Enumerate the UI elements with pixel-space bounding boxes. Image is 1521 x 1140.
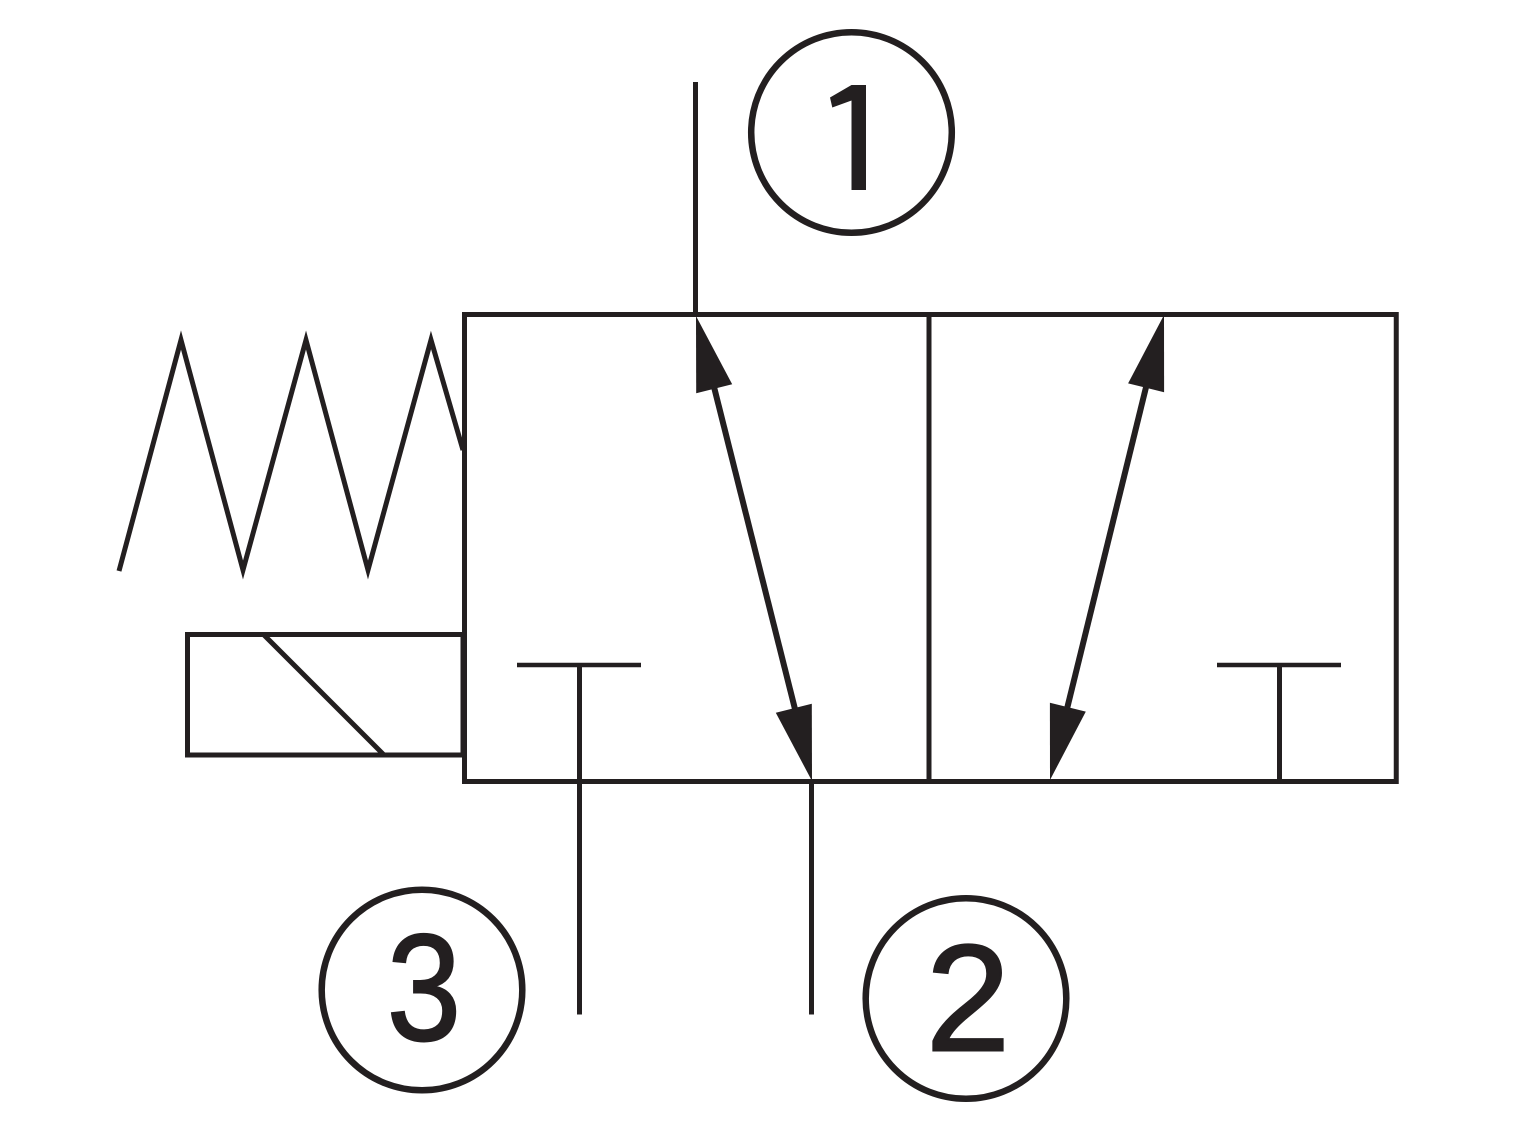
wire: port 1 supply line	[693, 82, 698, 316]
flow path arrow (right position, port 1 to port 2)	[1050, 315, 1164, 780]
blocked port seat T (right position)	[1217, 665, 1341, 781]
wire: port 2 outlet line	[809, 781, 814, 1015]
solenoid coil Y1	[188, 635, 464, 756]
blocked port seat T (left position, port 3)	[517, 663, 641, 668]
svg-text:3: 3	[387, 903, 461, 1073]
spring: return spring actuator	[119, 340, 463, 571]
valve position divider	[927, 315, 932, 782]
node 1: circled port label 1	[751, 32, 952, 233]
node 2: circled port label 2	[866, 898, 1067, 1099]
wire: port 3 exhaust line	[577, 665, 582, 1015]
svg-text:2: 2	[926, 914, 1011, 1084]
node 3: circled port label 3	[322, 890, 523, 1091]
flow path arrow (left position, port 1 to port 2)	[696, 316, 812, 781]
valve body V1: two-position envelope	[465, 315, 1397, 782]
